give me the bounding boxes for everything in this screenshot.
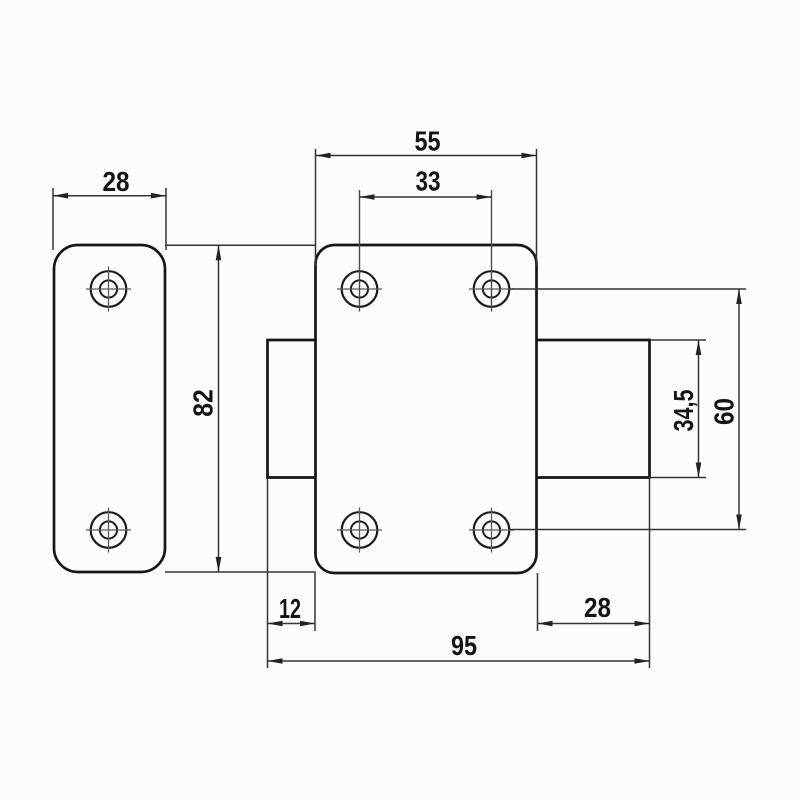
body hole top-right <box>469 271 514 307</box>
dimension 28 top-left line <box>53 195 166 197</box>
dimension 28 top-left extension lines <box>53 188 166 250</box>
lock body outline <box>316 245 537 573</box>
dimension 60 line <box>738 289 740 530</box>
right cylinder protrusion <box>537 340 650 478</box>
dimension 33 arrows <box>360 194 492 200</box>
body hole top-left <box>337 271 382 307</box>
dimension 12 line <box>268 623 316 625</box>
dimension 55 extension lines <box>316 149 537 266</box>
dimension 60 extension lines <box>510 289 746 530</box>
svg-text:33: 33 <box>416 166 441 197</box>
dimension 82 line <box>218 245 220 572</box>
svg-text:34,5: 34,5 <box>668 390 699 432</box>
svg-text:82: 82 <box>188 389 219 417</box>
left plate bottom mounting hole <box>86 508 131 553</box>
dimension 34,5 extension lines <box>650 340 706 478</box>
svg-text:95: 95 <box>451 630 477 661</box>
dimension 34,5 line <box>698 340 700 478</box>
dimension 34,5 arrows <box>696 340 702 478</box>
dimension 95 line <box>268 660 650 662</box>
dimension 28 bottom extension lines <box>538 478 650 669</box>
dimension 55 arrows <box>316 153 537 159</box>
dimension 12 extension lines <box>268 478 316 669</box>
dimension 33 extension lines <box>360 190 492 312</box>
svg-text:28: 28 <box>103 166 130 197</box>
dimension 33 line <box>360 196 492 198</box>
dimension 82 extension lines <box>165 245 316 572</box>
dimension 82 arrows <box>216 245 222 572</box>
dimension 60 arrows <box>736 289 742 530</box>
svg-text:28: 28 <box>584 592 611 623</box>
left bolt protrusion <box>268 340 316 478</box>
svg-text:55: 55 <box>415 126 441 157</box>
svg-text:12: 12 <box>279 593 301 624</box>
left strike plate outline <box>54 245 165 572</box>
dimension 28 bottom line <box>538 623 650 625</box>
dimension 55 line <box>316 155 537 157</box>
left plate top mounting hole <box>86 267 131 312</box>
body hole bottom-right <box>469 508 514 553</box>
dimension 12 arrows <box>268 621 316 627</box>
dimension 28 bottom arrows <box>538 621 650 627</box>
body hole bottom-left <box>337 508 382 553</box>
dimension 28 top-left arrows <box>53 193 166 199</box>
dimension 95 arrows <box>268 658 650 664</box>
svg-text:60: 60 <box>709 398 740 425</box>
